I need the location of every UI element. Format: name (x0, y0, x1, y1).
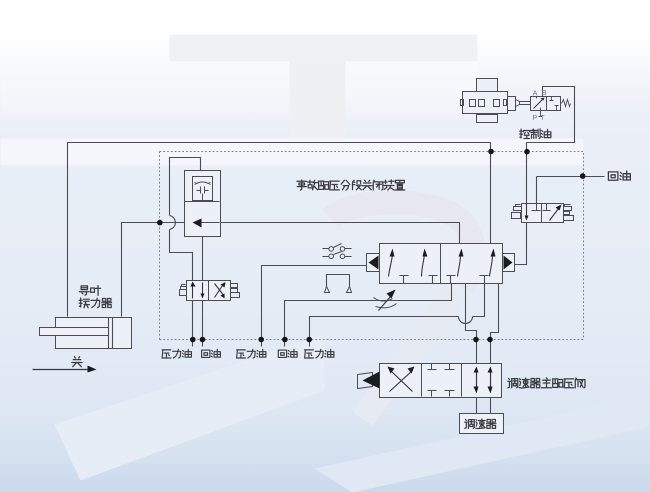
svg-text:A: A (533, 88, 538, 97)
svg-text:P: P (532, 113, 537, 122)
svg-text:T: T (540, 113, 545, 122)
svg-text:B: B (542, 88, 547, 97)
